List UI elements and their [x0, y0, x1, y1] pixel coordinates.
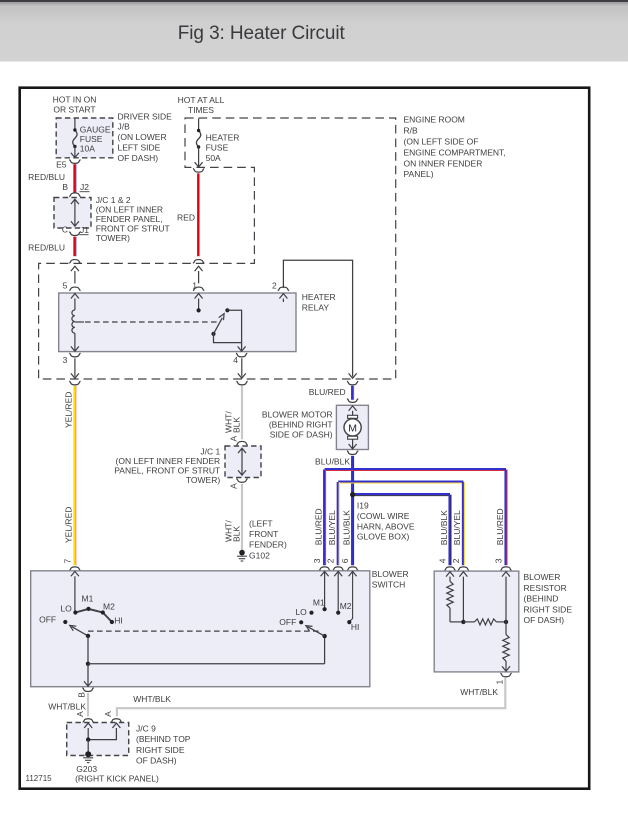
svg-text:BLU/BLK: BLU/BLK	[341, 510, 351, 545]
svg-text:R/B: R/B	[404, 126, 419, 136]
svg-text:ON INNER FENDER: ON INNER FENDER	[404, 158, 483, 168]
svg-text:RELAY: RELAY	[302, 303, 330, 313]
svg-text:J2: J2	[80, 182, 89, 192]
svg-text:RED: RED	[177, 212, 195, 222]
svg-text:M: M	[348, 423, 357, 435]
svg-text:HEATER: HEATER	[302, 292, 336, 302]
svg-text:BLU/RED: BLU/RED	[309, 387, 346, 397]
svg-text:HI: HI	[114, 616, 123, 626]
svg-text:HOT IN ON: HOT IN ON	[53, 94, 97, 104]
svg-text:J/C 1 & 2: J/C 1 & 2	[96, 195, 131, 205]
svg-text:BLK: BLK	[232, 417, 242, 433]
svg-text:RESISTOR: RESISTOR	[524, 583, 567, 593]
svg-text:LO: LO	[60, 603, 72, 613]
svg-text:5: 5	[63, 280, 68, 290]
svg-text:(ON LOWER: (ON LOWER	[118, 132, 167, 142]
svg-text:B: B	[77, 692, 87, 698]
svg-text:OR START: OR START	[53, 105, 95, 115]
svg-text:OFF: OFF	[279, 617, 296, 627]
svg-text:BLOWER: BLOWER	[372, 569, 409, 579]
svg-text:50A: 50A	[206, 153, 221, 163]
svg-text:OF DASH): OF DASH)	[118, 153, 159, 163]
svg-text:YEL/RED: YEL/RED	[64, 507, 74, 543]
svg-text:PANEL): PANEL)	[404, 169, 434, 179]
svg-text:HI: HI	[351, 622, 360, 632]
svg-text:FRONT OF STRUT: FRONT OF STRUT	[96, 224, 170, 234]
svg-text:DRIVER SIDE: DRIVER SIDE	[118, 111, 173, 121]
svg-text:ENGINE ROOM: ENGINE ROOM	[404, 115, 465, 125]
svg-text:J/C 9: J/C 9	[136, 724, 156, 734]
svg-text:HARN, ABOVE: HARN, ABOVE	[357, 521, 415, 531]
svg-text:FRONT: FRONT	[249, 529, 278, 539]
svg-text:BLU/BLK: BLU/BLK	[315, 456, 350, 466]
svg-text:4: 4	[233, 355, 238, 365]
svg-text:TIMES: TIMES	[188, 105, 214, 115]
svg-text:BLU/RED: BLU/RED	[495, 508, 505, 545]
svg-text:LEFT SIDE: LEFT SIDE	[118, 143, 161, 153]
svg-text:(BEHIND TOP: (BEHIND TOP	[136, 734, 191, 744]
svg-text:2: 2	[326, 558, 336, 563]
svg-text:10A: 10A	[80, 144, 95, 154]
svg-text:OF DASH): OF DASH)	[524, 615, 565, 625]
svg-text:BLU/BLK: BLU/BLK	[439, 510, 449, 545]
svg-text:2: 2	[272, 280, 277, 290]
svg-text:J/C 1: J/C 1	[200, 447, 220, 457]
svg-text:FENDER): FENDER)	[249, 540, 287, 550]
svg-text:Fig 3: Heater Circuit: Fig 3: Heater Circuit	[178, 23, 346, 44]
svg-text:BLU/YEL: BLU/YEL	[452, 510, 462, 545]
svg-text:3: 3	[493, 558, 503, 563]
svg-text:BLOWER MOTOR: BLOWER MOTOR	[262, 409, 333, 419]
svg-text:6: 6	[340, 558, 350, 563]
svg-text:112715: 112715	[26, 774, 53, 783]
svg-text:WHT/BLK: WHT/BLK	[48, 702, 86, 712]
svg-text:3: 3	[63, 355, 68, 365]
svg-text:BLOWER: BLOWER	[524, 572, 561, 582]
svg-text:RED/BLU: RED/BLU	[28, 172, 65, 182]
svg-text:FUSE: FUSE	[206, 143, 229, 153]
svg-text:RED/BLU: RED/BLU	[28, 242, 65, 252]
svg-text:M2: M2	[340, 601, 352, 611]
svg-text:1: 1	[495, 680, 505, 685]
svg-text:(BEHIND RIGHT: (BEHIND RIGHT	[269, 420, 333, 430]
svg-text:3: 3	[312, 558, 322, 563]
svg-text:WHT/BLK: WHT/BLK	[133, 694, 171, 704]
svg-text:7: 7	[62, 559, 72, 564]
svg-text:RIGHT SIDE: RIGHT SIDE	[524, 604, 573, 614]
svg-text:GAUGE: GAUGE	[80, 124, 111, 134]
svg-text:(COWL WIRE: (COWL WIRE	[357, 511, 410, 521]
svg-text:4: 4	[437, 558, 447, 563]
svg-text:OF DASH): OF DASH)	[136, 755, 177, 765]
svg-text:YEL/RED: YEL/RED	[64, 392, 74, 428]
svg-text:(LEFT: (LEFT	[249, 519, 273, 529]
svg-text:I19: I19	[357, 501, 369, 511]
svg-text:BLU/RED: BLU/RED	[313, 508, 323, 545]
svg-text:HOT AT ALL: HOT AT ALL	[178, 95, 225, 105]
svg-text:WHT/BLK: WHT/BLK	[460, 687, 498, 697]
svg-text:M2: M2	[103, 602, 115, 612]
svg-text:PANEL, FRONT OF STRUT: PANEL, FRONT OF STRUT	[114, 466, 220, 476]
svg-text:A: A	[228, 436, 238, 442]
svg-text:J/B: J/B	[118, 122, 131, 132]
svg-text:B: B	[62, 182, 68, 192]
svg-text:G102: G102	[249, 551, 270, 561]
svg-text:A: A	[103, 711, 113, 717]
svg-text:HEATER: HEATER	[206, 132, 240, 142]
svg-text:C: C	[62, 225, 68, 235]
svg-text:OFF: OFF	[39, 615, 56, 625]
svg-text:A: A	[75, 711, 85, 717]
svg-text:(ON LEFT INNER: (ON LEFT INNER	[96, 204, 163, 214]
svg-text:(RIGHT KICK PANEL): (RIGHT KICK PANEL)	[75, 774, 159, 784]
svg-text:SIDE OF DASH): SIDE OF DASH)	[270, 430, 333, 440]
svg-text:SWITCH: SWITCH	[372, 580, 406, 590]
svg-text:M1: M1	[313, 598, 325, 608]
svg-text:A: A	[228, 483, 238, 489]
svg-text:FENDER PANEL,: FENDER PANEL,	[96, 214, 163, 224]
svg-text:LO: LO	[295, 607, 307, 617]
svg-text:ENGINE COMPARTMENT,: ENGINE COMPARTMENT,	[404, 147, 506, 157]
svg-text:GLOVE BOX): GLOVE BOX)	[357, 532, 410, 542]
svg-text:M1: M1	[82, 593, 94, 603]
svg-text:TOWER): TOWER)	[186, 475, 220, 485]
svg-text:E5: E5	[56, 160, 67, 170]
svg-text:J1: J1	[80, 225, 89, 235]
svg-text:BLU/YEL: BLU/YEL	[327, 510, 337, 545]
svg-text:2: 2	[451, 558, 461, 563]
svg-text:(BEHIND: (BEHIND	[524, 594, 559, 604]
svg-text:TOWER): TOWER)	[96, 233, 130, 243]
svg-text:(ON LEFT INNER FENDER: (ON LEFT INNER FENDER	[116, 456, 221, 466]
svg-text:BLK: BLK	[232, 526, 242, 542]
svg-text:(ON LEFT SIDE OF: (ON LEFT SIDE OF	[404, 137, 479, 147]
svg-text:FUSE: FUSE	[80, 134, 103, 144]
svg-text:RIGHT SIDE: RIGHT SIDE	[136, 745, 185, 755]
